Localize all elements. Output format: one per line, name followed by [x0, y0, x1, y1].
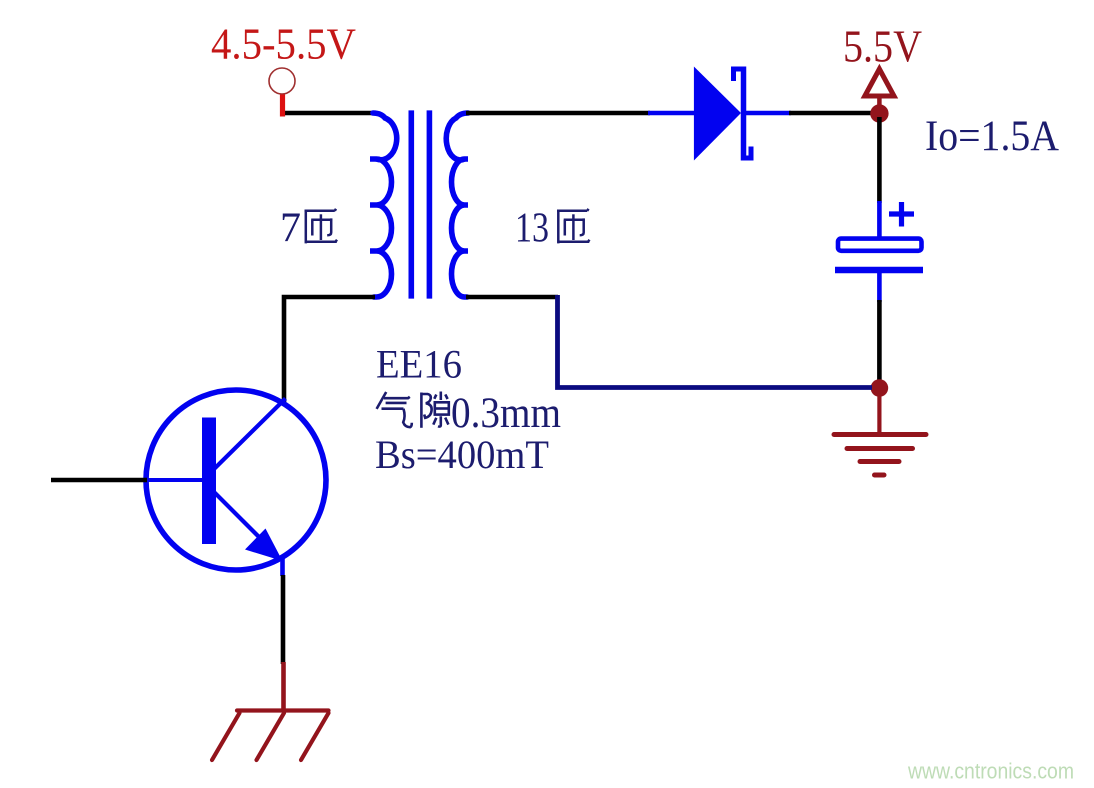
- wire secondary bottom (black segment): [466, 295, 558, 300]
- transistor Q1 emitter diagonal with arrow: [211, 489, 283, 576]
- wire diode to output node: [789, 111, 874, 116]
- transistor Q1 collector diagonal: [211, 399, 286, 473]
- junction node ground (dot): [871, 379, 889, 397]
- svg-text:5.5V: 5.5V: [843, 21, 922, 72]
- power terminal 5.5V triangle: [865, 69, 894, 96]
- junction node output (dot): [870, 104, 888, 122]
- ground symbol output: [834, 396, 926, 475]
- capacitor C1 negative lead: [877, 272, 882, 302]
- transistor Q1 base bar: [202, 418, 216, 545]
- wire capacitor to ground node: [877, 300, 882, 382]
- transistor Q1 base inner lead: [145, 478, 203, 482]
- svg-text:4.5-5.5V: 4.5-5.5V: [211, 20, 356, 69]
- diode D1 cathode lead: [746, 111, 791, 116]
- wire terminal stub 5.5V: [877, 96, 882, 108]
- label + polarity: [889, 202, 914, 227]
- diode D1 anode lead: [648, 111, 695, 116]
- capacitor C1 positive lead: [877, 201, 882, 237]
- wire VIN red stub: [280, 95, 285, 117]
- transistor Q1 circle: [146, 390, 326, 570]
- wire base: [51, 478, 147, 483]
- svg-text:EE16: EE16: [376, 342, 462, 387]
- wire primary bottom to collector: [284, 297, 375, 402]
- wire secondary top to diode: [466, 111, 650, 116]
- svg-text:Bs=400mT: Bs=400mT: [375, 432, 549, 477]
- capacitor C1 bottom plate: [835, 267, 923, 274]
- diode D1 (Schottky): [694, 67, 751, 161]
- svg-text:0.3mm: 0.3mm: [451, 390, 561, 437]
- capacitor C1 top plate: [838, 239, 922, 251]
- ground symbol emitter: [212, 711, 329, 761]
- node VIN input terminal circle: [269, 68, 295, 94]
- transformer T1 core: [411, 110, 429, 298]
- label 气 (air): [377, 392, 412, 427]
- svg-text:Io=1.5A: Io=1.5A: [925, 113, 1059, 160]
- wire top primary (input to transformer): [281, 111, 376, 116]
- wire emitter ground stub (dark red): [281, 662, 286, 712]
- transformer T1 primary winding (7 turns): [370, 113, 397, 297]
- wire output node down to capacitor: [877, 117, 882, 203]
- svg-text:7: 7: [280, 206, 301, 252]
- wire emitter: [281, 575, 286, 664]
- label 匝 (secondary turns unit): [557, 209, 590, 244]
- wire secondary return (navy): [558, 295, 873, 388]
- svg-text:www.cntronics.com: www.cntronics.com: [907, 759, 1074, 784]
- label 匝 (primary turns unit): [305, 209, 338, 244]
- transformer T1 secondary winding (13 turns): [446, 113, 468, 297]
- svg-text:13: 13: [515, 206, 549, 252]
- label 隙 (gap): [421, 392, 448, 428]
